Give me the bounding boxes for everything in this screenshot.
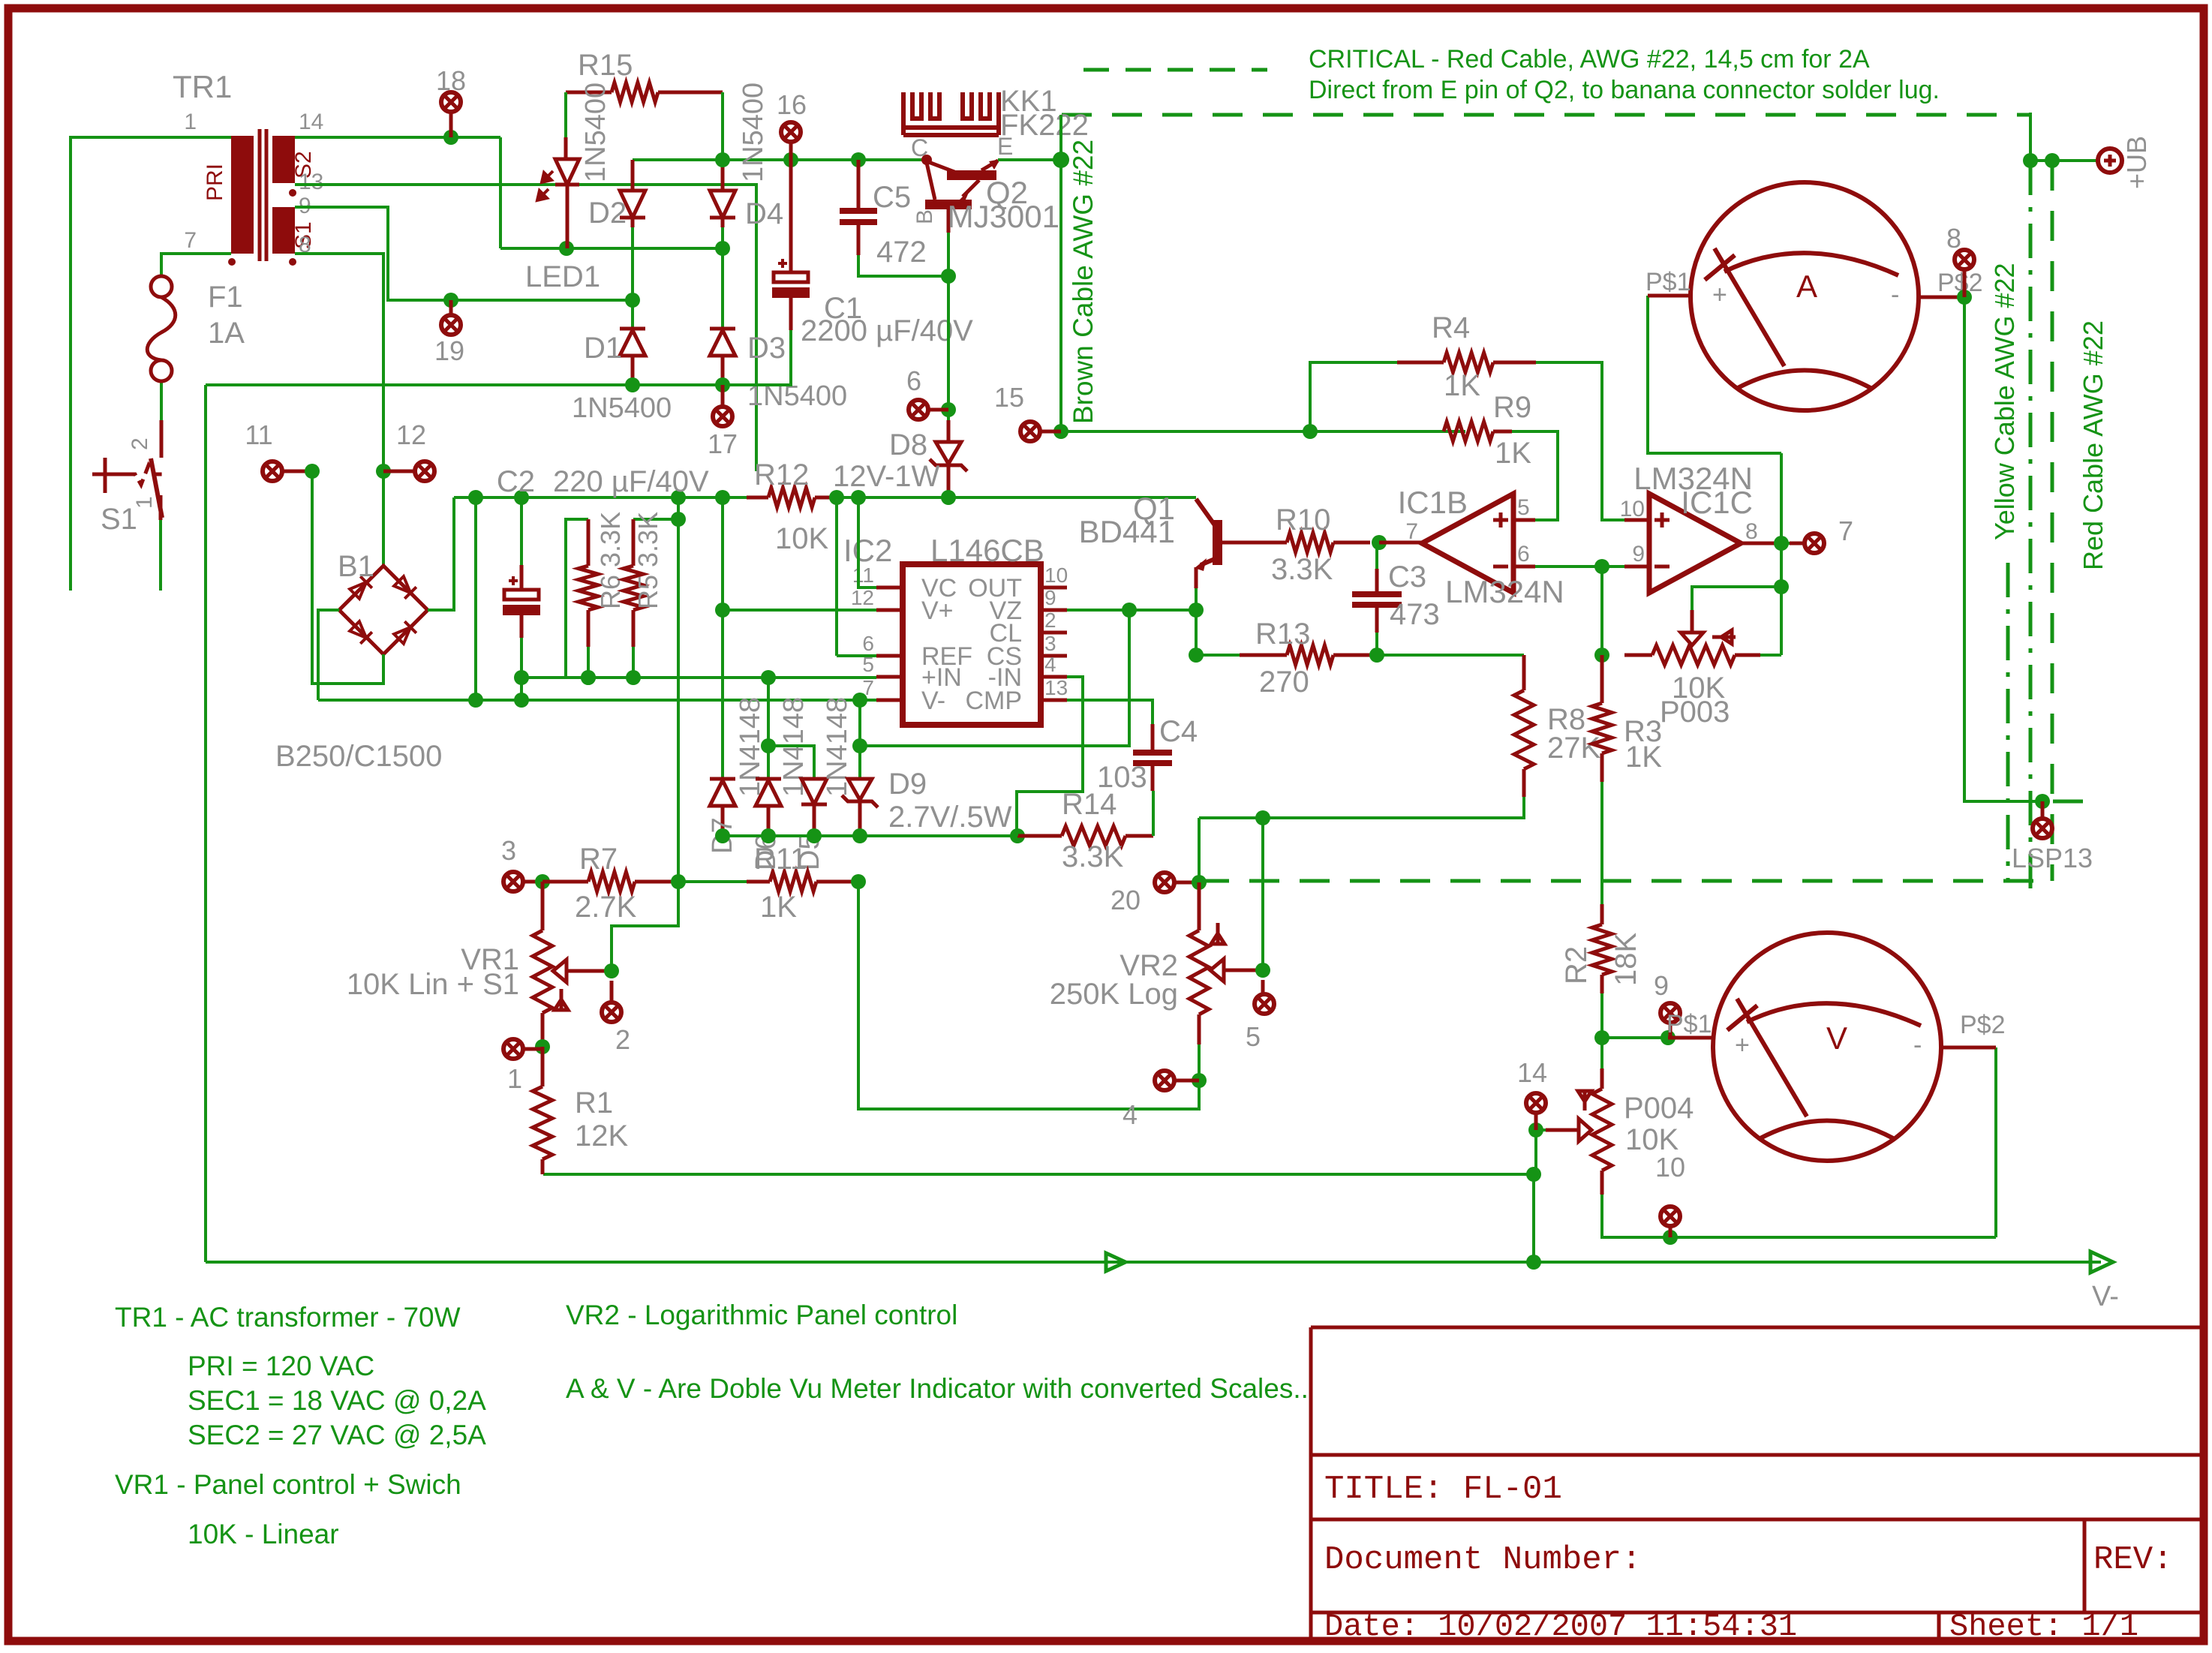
TR1 pin 1 number — [184, 110, 197, 134]
pad LSP13 label — [2012, 843, 2093, 873]
svg-text:9: 9 — [1632, 542, 1645, 567]
pot VR2 top lead — [1198, 882, 1201, 930]
IC2 pin 6 number — [862, 632, 874, 655]
fuse F1 — [147, 276, 176, 381]
wire pin13 — [295, 185, 756, 471]
meter A minus — [1891, 281, 1899, 309]
svg-text:PRI: PRI — [203, 164, 227, 201]
opamp IC1B plus — [1493, 512, 1508, 527]
resistor R13 — [1240, 645, 1377, 665]
switch S1 pin1 number — [132, 496, 157, 509]
svg-text:+: + — [1712, 281, 1727, 309]
IC2 pin 9 number — [1044, 586, 1056, 609]
wire P004 bottom — [1602, 1195, 1996, 1237]
wire P003 right — [1760, 654, 1781, 657]
junction pad19 — [443, 293, 458, 308]
svg-text:R5 3.3K: R5 3.3K — [633, 512, 663, 609]
svg-text:D2: D2 — [588, 197, 627, 230]
wire meter A plus — [1648, 296, 1781, 453]
transformer TR1 primary winding — [231, 136, 254, 254]
IC2 label — [843, 533, 892, 568]
diode D1 label — [584, 332, 622, 365]
junction pin9 to D-column — [625, 293, 640, 308]
diode D6 label — [750, 834, 782, 870]
capacitor C5 value — [876, 236, 927, 269]
IC2 pin name V+ — [921, 597, 954, 625]
meter V plus — [1735, 1031, 1750, 1059]
title block TITLE text — [1324, 1471, 1562, 1508]
meter V minus — [1913, 1031, 1922, 1059]
resistor R10 — [1240, 533, 1370, 552]
wire R6 bottom — [587, 647, 590, 678]
wire R6 top jog — [566, 519, 588, 678]
resistor R3 — [1592, 655, 1612, 782]
pad 12 label — [396, 419, 426, 450]
note VR1 — [115, 1469, 461, 1500]
svg-text:D8: D8 — [889, 428, 927, 461]
IC2 pin name +IN — [921, 663, 962, 692]
IC2 pin 10 number — [1044, 564, 1068, 587]
IC2 pin name OUT — [968, 574, 1022, 603]
diode D3 label — [747, 332, 786, 365]
svg-text:250K Log: 250K Log — [1050, 978, 1178, 1011]
junction C2 plusin — [514, 670, 529, 685]
capacitor C5 top lead — [857, 160, 861, 208]
pad 2 label — [615, 1024, 630, 1055]
resistor R1 value — [575, 1120, 628, 1153]
pad 1 label — [507, 1063, 522, 1094]
junction R12 out — [851, 490, 866, 505]
capacitor C3 — [1352, 591, 1402, 608]
resistor R9 value — [1495, 437, 1531, 470]
wire minus col top — [1600, 567, 1603, 655]
junction D9 top — [852, 693, 867, 708]
junction +UB a — [2023, 153, 2038, 168]
resistor R8 label — [1547, 703, 1585, 736]
pad 14 label — [1517, 1057, 1547, 1088]
transformer PRI label — [203, 164, 227, 201]
V minus rail — [206, 1261, 2101, 1264]
junction C2 vminus — [514, 693, 529, 708]
svg-text:Red Cable AWG #22: Red Cable AWG #22 — [2078, 320, 2108, 570]
junction pad3 — [535, 874, 550, 889]
pad 16 — [781, 122, 801, 160]
pad 20 label — [1111, 885, 1141, 915]
resistor R11 label — [754, 843, 807, 876]
svg-text:R13: R13 — [1255, 618, 1310, 651]
heatsink KK1 — [903, 92, 999, 135]
svg-text:REV:: REV: — [2093, 1541, 2173, 1579]
svg-text:13: 13 — [1044, 676, 1068, 699]
wire wiper jog — [1692, 587, 1781, 610]
resistor R12 label — [754, 458, 809, 491]
svg-text:1N5400: 1N5400 — [580, 83, 612, 182]
IC1B pin5 number — [1517, 495, 1530, 520]
svg-text:12: 12 — [851, 586, 874, 609]
wire wiper to pad14 — [1536, 1129, 1546, 1132]
junction pad9 — [1661, 1030, 1676, 1045]
svg-text:103: 103 — [1097, 761, 1147, 794]
red cable dashed horizontal — [1199, 879, 2052, 883]
svg-text:R12: R12 — [754, 458, 809, 491]
wire R5 bottom — [632, 647, 635, 678]
svg-text:Yellow Cable AWG #22: Yellow Cable AWG #22 — [1989, 263, 2020, 540]
svg-text:R4: R4 — [1432, 311, 1470, 344]
wire ac row Y331 — [500, 247, 723, 250]
pot P003 wiper lead — [1691, 610, 1694, 633]
svg-text:V: V — [1826, 1020, 1847, 1056]
riser x634 — [474, 497, 477, 700]
diode D7 name — [735, 697, 766, 797]
yellow cable dash-dot vertical 2 — [2006, 563, 2010, 881]
svg-text:10: 10 — [1044, 564, 1068, 587]
svg-text:10: 10 — [1655, 1152, 1685, 1183]
meter A plus — [1712, 281, 1727, 309]
wire REF row — [837, 654, 876, 657]
pad 3 label — [501, 835, 516, 866]
junction P003 left — [1594, 648, 1609, 663]
diode D5 name — [822, 697, 853, 797]
junction R5 top — [671, 512, 686, 527]
meter V P2 lead — [1940, 1046, 1996, 1050]
svg-text:1A: 1A — [208, 317, 245, 350]
pad 17 — [713, 385, 732, 426]
meter A letter — [1796, 269, 1817, 304]
IC1B pin7 lead — [1379, 541, 1422, 545]
svg-text:473: 473 — [1390, 598, 1440, 631]
svg-text:12V-1W: 12V-1W — [833, 460, 940, 493]
pad 7 lead — [1790, 542, 1804, 545]
pot P003 label — [1660, 696, 1730, 729]
resistor R3 label — [1624, 715, 1662, 748]
svg-text:11: 11 — [852, 564, 874, 587]
pad 4 label — [1123, 1099, 1138, 1130]
diode D7 — [710, 779, 735, 836]
svg-text:TR1: TR1 — [173, 69, 232, 104]
IC2 pin 4 number — [1044, 653, 1056, 676]
capacitor C2 label — [497, 465, 535, 498]
resistor R1 — [533, 1047, 552, 1174]
junction Y663 D7 — [715, 490, 730, 505]
svg-text:15: 15 — [994, 382, 1024, 413]
diode D1 name — [572, 392, 672, 424]
svg-text:VR2 - Logarithmic Panel contro: VR2 - Logarithmic Panel control — [566, 1300, 957, 1330]
resistor R2 — [1592, 904, 1612, 993]
capacitor C1 label — [824, 292, 862, 325]
pot P004 — [1592, 1089, 1612, 1195]
svg-text:+UB: +UB — [2121, 136, 2152, 189]
wire R13 row — [1196, 654, 1240, 657]
junction pad14 — [1528, 1123, 1543, 1138]
svg-text:B1: B1 — [338, 550, 374, 583]
pad 8 — [1955, 250, 1974, 297]
junction R6 bottom — [581, 670, 596, 685]
resistor R5 label — [633, 512, 663, 609]
label E — [997, 133, 1013, 160]
svg-text:CMP: CMP — [965, 687, 1022, 715]
meter V — [1713, 933, 1941, 1161]
wire meter V P2 riser — [1994, 1047, 1997, 1237]
diode D4 — [710, 160, 735, 227]
svg-text:BD441: BD441 — [1079, 514, 1175, 549]
svg-text:C4: C4 — [1159, 715, 1198, 748]
transistor Q2 collector dot — [921, 155, 932, 165]
wire R8 bottom — [1199, 797, 1524, 818]
junction D3 anode — [715, 377, 730, 392]
pad 1 — [503, 1039, 542, 1059]
svg-text:R9: R9 — [1493, 391, 1531, 424]
junction D7 anode — [715, 828, 730, 843]
junction R5 bottom — [626, 670, 641, 685]
opamp IC1C plus — [1654, 512, 1670, 527]
wire pin14 row — [295, 136, 500, 139]
rail Y663 mid — [837, 496, 858, 499]
svg-text:5: 5 — [1246, 1021, 1261, 1052]
label C — [911, 134, 928, 161]
zener D9 value — [888, 801, 1012, 834]
resistor R7 label — [579, 843, 618, 876]
switch S1 pin2 number — [128, 437, 152, 450]
transistor Q2 label — [986, 175, 1028, 210]
svg-text:V-: V- — [921, 687, 945, 715]
resistor R7 — [542, 872, 678, 891]
junction x634 bottom — [468, 693, 483, 708]
wire B1 left — [318, 610, 339, 700]
junction R1 row right — [1526, 1167, 1541, 1182]
diode D3 name — [747, 380, 847, 412]
wire S1 pin1 down — [159, 520, 162, 591]
transformer TR1 secondary S1 — [272, 207, 295, 254]
wire D5 riser — [768, 746, 814, 779]
capacitor C4 bottom lead — [1151, 766, 1155, 791]
diode D4 name — [738, 83, 769, 182]
opamp IC1C label — [1681, 485, 1753, 520]
wire TR1 pin1 to left — [71, 137, 231, 591]
wire R5 top jog — [633, 518, 678, 521]
svg-text:FK222: FK222 — [1000, 109, 1089, 142]
wire VR2 bottom — [858, 882, 1199, 1109]
svg-text:20: 20 — [1111, 885, 1141, 915]
note TR1 transformer — [115, 1302, 461, 1333]
svg-text:3.3K: 3.3K — [1062, 840, 1124, 873]
left V- column — [204, 385, 207, 1262]
svg-text:13: 13 — [299, 170, 323, 194]
bridge B1 label — [338, 550, 374, 583]
wire IC1C out to pad7 — [1781, 542, 1804, 545]
IC2 pin name CS — [987, 642, 1022, 671]
pot VR2 — [1189, 930, 1209, 1044]
+UB label — [2121, 136, 2152, 189]
pad 6 — [909, 400, 948, 419]
transistor Q2 value — [948, 199, 1059, 234]
junction VZ emitter row — [1122, 603, 1137, 618]
svg-text:270: 270 — [1259, 666, 1309, 699]
svg-text:C: C — [911, 134, 928, 161]
note A and V meters — [566, 1373, 1309, 1404]
resistor R8 — [1514, 655, 1534, 797]
IC2 pin name REF — [921, 642, 972, 671]
junction D4 cathode — [715, 241, 730, 256]
dashed critical route horizontal — [1062, 113, 2030, 117]
svg-text:4: 4 — [1044, 653, 1056, 676]
svg-text:P$1: P$1 — [1667, 1010, 1712, 1038]
capacitor C2 value — [553, 465, 709, 498]
svg-text:C5: C5 — [873, 181, 911, 214]
junction pad18 — [443, 130, 458, 145]
wire vplus pin — [894, 609, 897, 612]
svg-text:P003: P003 — [1660, 696, 1730, 729]
diode D1 — [620, 329, 645, 385]
svg-text:1: 1 — [507, 1063, 522, 1094]
IC1B pin6 lead — [1513, 565, 1535, 569]
svg-text:18K: 18K — [1609, 933, 1642, 986]
junction minin R14 — [1010, 828, 1025, 843]
pad 12 — [383, 461, 434, 481]
svg-text:10K: 10K — [775, 522, 828, 555]
wire out riser — [1780, 453, 1783, 655]
IC2 pin 2 number — [1044, 609, 1056, 632]
svg-text:10: 10 — [1620, 497, 1645, 521]
junction C5 top — [851, 152, 866, 167]
svg-text:+: + — [1735, 1031, 1750, 1059]
pad 3 — [503, 872, 542, 891]
wire pin9 — [295, 207, 633, 300]
wire R9 row — [1061, 430, 1465, 433]
capacitor C5 — [840, 208, 877, 225]
svg-text:PRI = 120 VAC: PRI = 120 VAC — [188, 1351, 374, 1381]
wire C2 bottom — [520, 638, 523, 700]
diode D2 — [620, 160, 645, 227]
switch S1 pin2 wire — [160, 389, 163, 420]
opamp IC1B minus — [1493, 565, 1508, 569]
IC2 pin name CMP — [965, 687, 1022, 715]
svg-text:1K: 1K — [1444, 369, 1480, 402]
svg-text:R2: R2 — [1560, 946, 1593, 984]
pad 7 label — [1838, 515, 1853, 546]
svg-text:18: 18 — [436, 65, 466, 96]
pad 9 — [1661, 1003, 1680, 1038]
junction base pad6 — [941, 402, 956, 417]
junction Q1 R13 — [1189, 648, 1204, 663]
transistor Q1 value — [1079, 514, 1175, 549]
junction pad20 — [1192, 875, 1207, 890]
resistor R4 label — [1432, 311, 1470, 344]
TR1 polarity dots — [228, 189, 296, 266]
meter A P1 lead — [1648, 294, 1692, 298]
resistor R15 label — [578, 49, 633, 82]
svg-text:Direct from E pin of Q2, to ba: Direct from E pin of Q2, to banana conne… — [1309, 76, 1940, 104]
svg-text:Brown Cable AWG #22: Brown Cable AWG #22 — [1068, 140, 1098, 424]
resistor R15 — [566, 83, 723, 102]
junction Y663 C2 — [514, 490, 529, 505]
pad 4 — [1155, 1071, 1199, 1090]
vminus row — [318, 699, 876, 702]
wire pin13 jog — [1067, 700, 1153, 724]
transistor Q2 collector line1 — [927, 161, 954, 172]
diode D6 — [756, 779, 781, 836]
wire minus row — [1535, 565, 1624, 568]
wire B1 right — [428, 497, 454, 610]
svg-text:R10: R10 — [1276, 503, 1330, 536]
svg-text:9: 9 — [1654, 970, 1669, 1001]
junction D4 top — [715, 152, 730, 167]
pad 19 — [441, 300, 461, 335]
svg-text:3: 3 — [501, 835, 516, 866]
V minus label — [2092, 1281, 2119, 1312]
junction out wiper — [1774, 579, 1789, 594]
junction D6 mid — [761, 738, 776, 753]
svg-text:B250/C1500: B250/C1500 — [275, 740, 442, 773]
wire R4 left — [1310, 362, 1397, 431]
wire R15 left down — [564, 92, 567, 137]
wire wiper up — [612, 882, 678, 971]
svg-text:14: 14 — [299, 110, 323, 134]
capacitor C1 — [772, 259, 810, 298]
junction base C5 — [941, 269, 956, 284]
svg-text:D1: D1 — [584, 332, 622, 365]
svg-text:12: 12 — [396, 419, 426, 450]
wire R9 to pin5 — [1512, 431, 1558, 520]
heatsink KK1 label — [1000, 85, 1057, 118]
yellow cable dash-dot vertical — [2029, 161, 2033, 893]
resistor R6 label — [595, 512, 626, 609]
wire meter A P2 down — [1964, 297, 2042, 801]
junction R11 right — [851, 874, 866, 889]
V minus arrow — [2090, 1252, 2113, 1273]
resistor R13 label — [1255, 618, 1310, 651]
resistor R11 value — [760, 891, 797, 924]
wire D2 cathode down — [631, 227, 634, 328]
svg-text:1N5400: 1N5400 — [738, 83, 769, 182]
wire R7R11 row — [678, 880, 747, 883]
svg-text:12K: 12K — [575, 1120, 628, 1153]
svg-text:-: - — [1891, 281, 1899, 309]
svg-text:19: 19 — [434, 335, 464, 366]
resistor R9 — [1444, 422, 1512, 441]
opamp IC1B name — [1445, 574, 1564, 609]
svg-text:220 µF/40V: 220 µF/40V — [553, 465, 709, 498]
IC2 pin name CL — [990, 619, 1022, 648]
row Y1114 — [723, 834, 1017, 837]
diode D7 label — [707, 817, 738, 854]
wire C5 bottom jog — [858, 255, 948, 276]
switch S1 label — [101, 503, 137, 536]
junction Y903 R6 — [581, 670, 596, 685]
wire C2 top — [520, 497, 523, 565]
pad 6 label — [906, 365, 921, 396]
junction VR2 wiper — [1255, 963, 1270, 978]
svg-text:C2: C2 — [497, 465, 535, 498]
pot VR1 — [533, 930, 552, 1047]
resistor R10 label — [1276, 503, 1330, 536]
IC2 pin 5 number — [862, 653, 874, 676]
svg-text:1K: 1K — [1495, 437, 1531, 470]
title block Sheet text — [1949, 1609, 2138, 1645]
wire pin8 — [295, 254, 383, 566]
svg-text:MJ3001: MJ3001 — [948, 199, 1059, 234]
wire D4 cathode down — [721, 227, 724, 248]
junction brown pad15 — [1053, 424, 1068, 439]
svg-text:IC1B: IC1B — [1398, 485, 1468, 520]
junction LSP13 — [2035, 794, 2050, 809]
svg-text:V+: V+ — [921, 597, 954, 625]
svg-text:R11: R11 — [754, 843, 807, 876]
switch S1 blade — [151, 458, 162, 518]
capacitor C3 bottom lead — [1375, 608, 1379, 633]
resistor R14 label — [1062, 788, 1117, 821]
wire pin14 down to bridge row — [499, 137, 502, 248]
LED1 label — [525, 260, 600, 293]
